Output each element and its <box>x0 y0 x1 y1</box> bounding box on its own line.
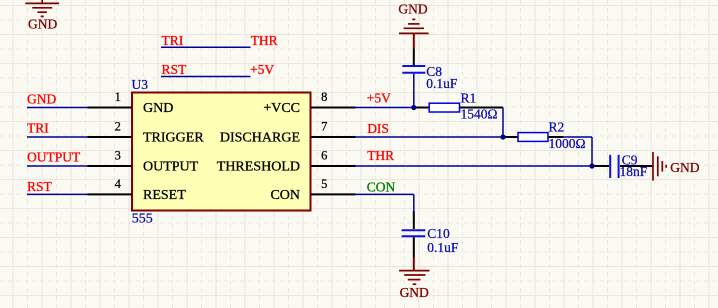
svg-text:TRI: TRI <box>162 33 184 48</box>
svg-text:+VCC: +VCC <box>263 101 300 116</box>
svg-text:RST: RST <box>27 179 53 194</box>
svg-text:GND: GND <box>27 91 56 106</box>
svg-text:GND: GND <box>143 101 173 116</box>
svg-text:5: 5 <box>321 177 327 191</box>
svg-text:1: 1 <box>115 90 121 104</box>
svg-text:RESET: RESET <box>143 188 186 203</box>
svg-text:GND: GND <box>398 2 427 17</box>
svg-text:1000Ω: 1000Ω <box>549 136 586 151</box>
svg-text:GND: GND <box>670 160 699 175</box>
svg-text:18nF: 18nF <box>620 164 648 179</box>
svg-text:CON: CON <box>367 180 396 195</box>
svg-text:1540Ω: 1540Ω <box>461 107 498 122</box>
svg-text:R2: R2 <box>549 120 565 135</box>
svg-text:OUTPUT: OUTPUT <box>27 150 81 165</box>
svg-text:THR: THR <box>251 33 278 48</box>
svg-text:3: 3 <box>115 149 121 163</box>
svg-text:OUTPUT: OUTPUT <box>143 160 199 175</box>
svg-text:TRI: TRI <box>27 121 49 136</box>
svg-text:TRIGGER: TRIGGER <box>143 131 204 146</box>
svg-text:U3: U3 <box>132 77 149 92</box>
svg-text:THR: THR <box>367 148 394 163</box>
svg-text:C10: C10 <box>427 226 450 241</box>
svg-text:+5V: +5V <box>367 91 391 106</box>
svg-text:DIS: DIS <box>367 121 389 136</box>
svg-text:0.1uF: 0.1uF <box>427 240 459 255</box>
svg-text:RST: RST <box>162 62 188 77</box>
svg-text:GND: GND <box>400 285 429 300</box>
svg-text:2: 2 <box>115 120 121 134</box>
svg-text:GND: GND <box>28 16 57 31</box>
svg-text:+5V: +5V <box>250 62 274 77</box>
svg-text:DISCHARGE: DISCHARGE <box>220 131 300 146</box>
svg-text:4: 4 <box>115 177 122 191</box>
svg-text:555: 555 <box>132 212 153 227</box>
svg-text:6: 6 <box>321 149 327 163</box>
svg-text:THRESHOLD: THRESHOLD <box>217 160 300 175</box>
svg-text:CON: CON <box>270 188 300 203</box>
svg-text:8: 8 <box>321 90 327 104</box>
svg-text:7: 7 <box>321 120 327 134</box>
svg-text:R1: R1 <box>461 91 477 106</box>
svg-text:0.1uF: 0.1uF <box>426 76 458 91</box>
